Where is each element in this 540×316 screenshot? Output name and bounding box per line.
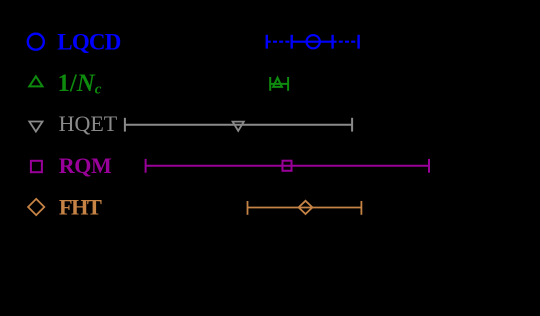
1/Nc left cap <box>269 77 271 91</box>
HQET error bar line <box>125 124 352 126</box>
1/Nc error bar line <box>270 83 288 85</box>
FHT error bar line <box>248 207 362 209</box>
LQCD outer error bar left dashed segment <box>267 41 292 43</box>
FHT left cap <box>247 201 249 215</box>
FHT right cap <box>360 201 362 215</box>
legend marker diamond FHT <box>28 199 44 215</box>
svg-text:LQCD: LQCD <box>57 29 120 54</box>
svg-text:HQET: HQET <box>59 111 118 136</box>
LQCD inner right cap <box>331 35 333 49</box>
LQCD outer error bar right dashed segment <box>333 41 359 43</box>
HQET left cap <box>124 118 126 132</box>
RQM data point square <box>283 161 292 171</box>
HQET data point triangle-down <box>233 122 244 131</box>
LQCD outer left cap <box>266 35 268 49</box>
1/Nc right cap <box>287 77 289 91</box>
RQM right cap <box>428 159 430 173</box>
LQCD inner left cap <box>291 35 293 49</box>
svg-text:RQM: RQM <box>59 153 112 178</box>
RQM error bar line <box>146 165 429 167</box>
RQM left cap <box>145 159 147 173</box>
legend marker triangle-down HQET <box>29 122 42 132</box>
LQCD inner error bar solid segment <box>292 41 333 43</box>
FHT data point diamond <box>299 201 313 214</box>
LQCD outer right cap <box>357 35 359 49</box>
1/Nc data point triangle <box>273 78 282 87</box>
svg-text:FHT: FHT <box>59 195 102 220</box>
legend marker circle LQCD <box>28 34 44 50</box>
HQET right cap <box>351 118 353 132</box>
legend marker triangle 1/Nc <box>29 76 42 86</box>
legend marker square RQM <box>31 161 42 172</box>
LQCD data point circle <box>307 35 320 48</box>
